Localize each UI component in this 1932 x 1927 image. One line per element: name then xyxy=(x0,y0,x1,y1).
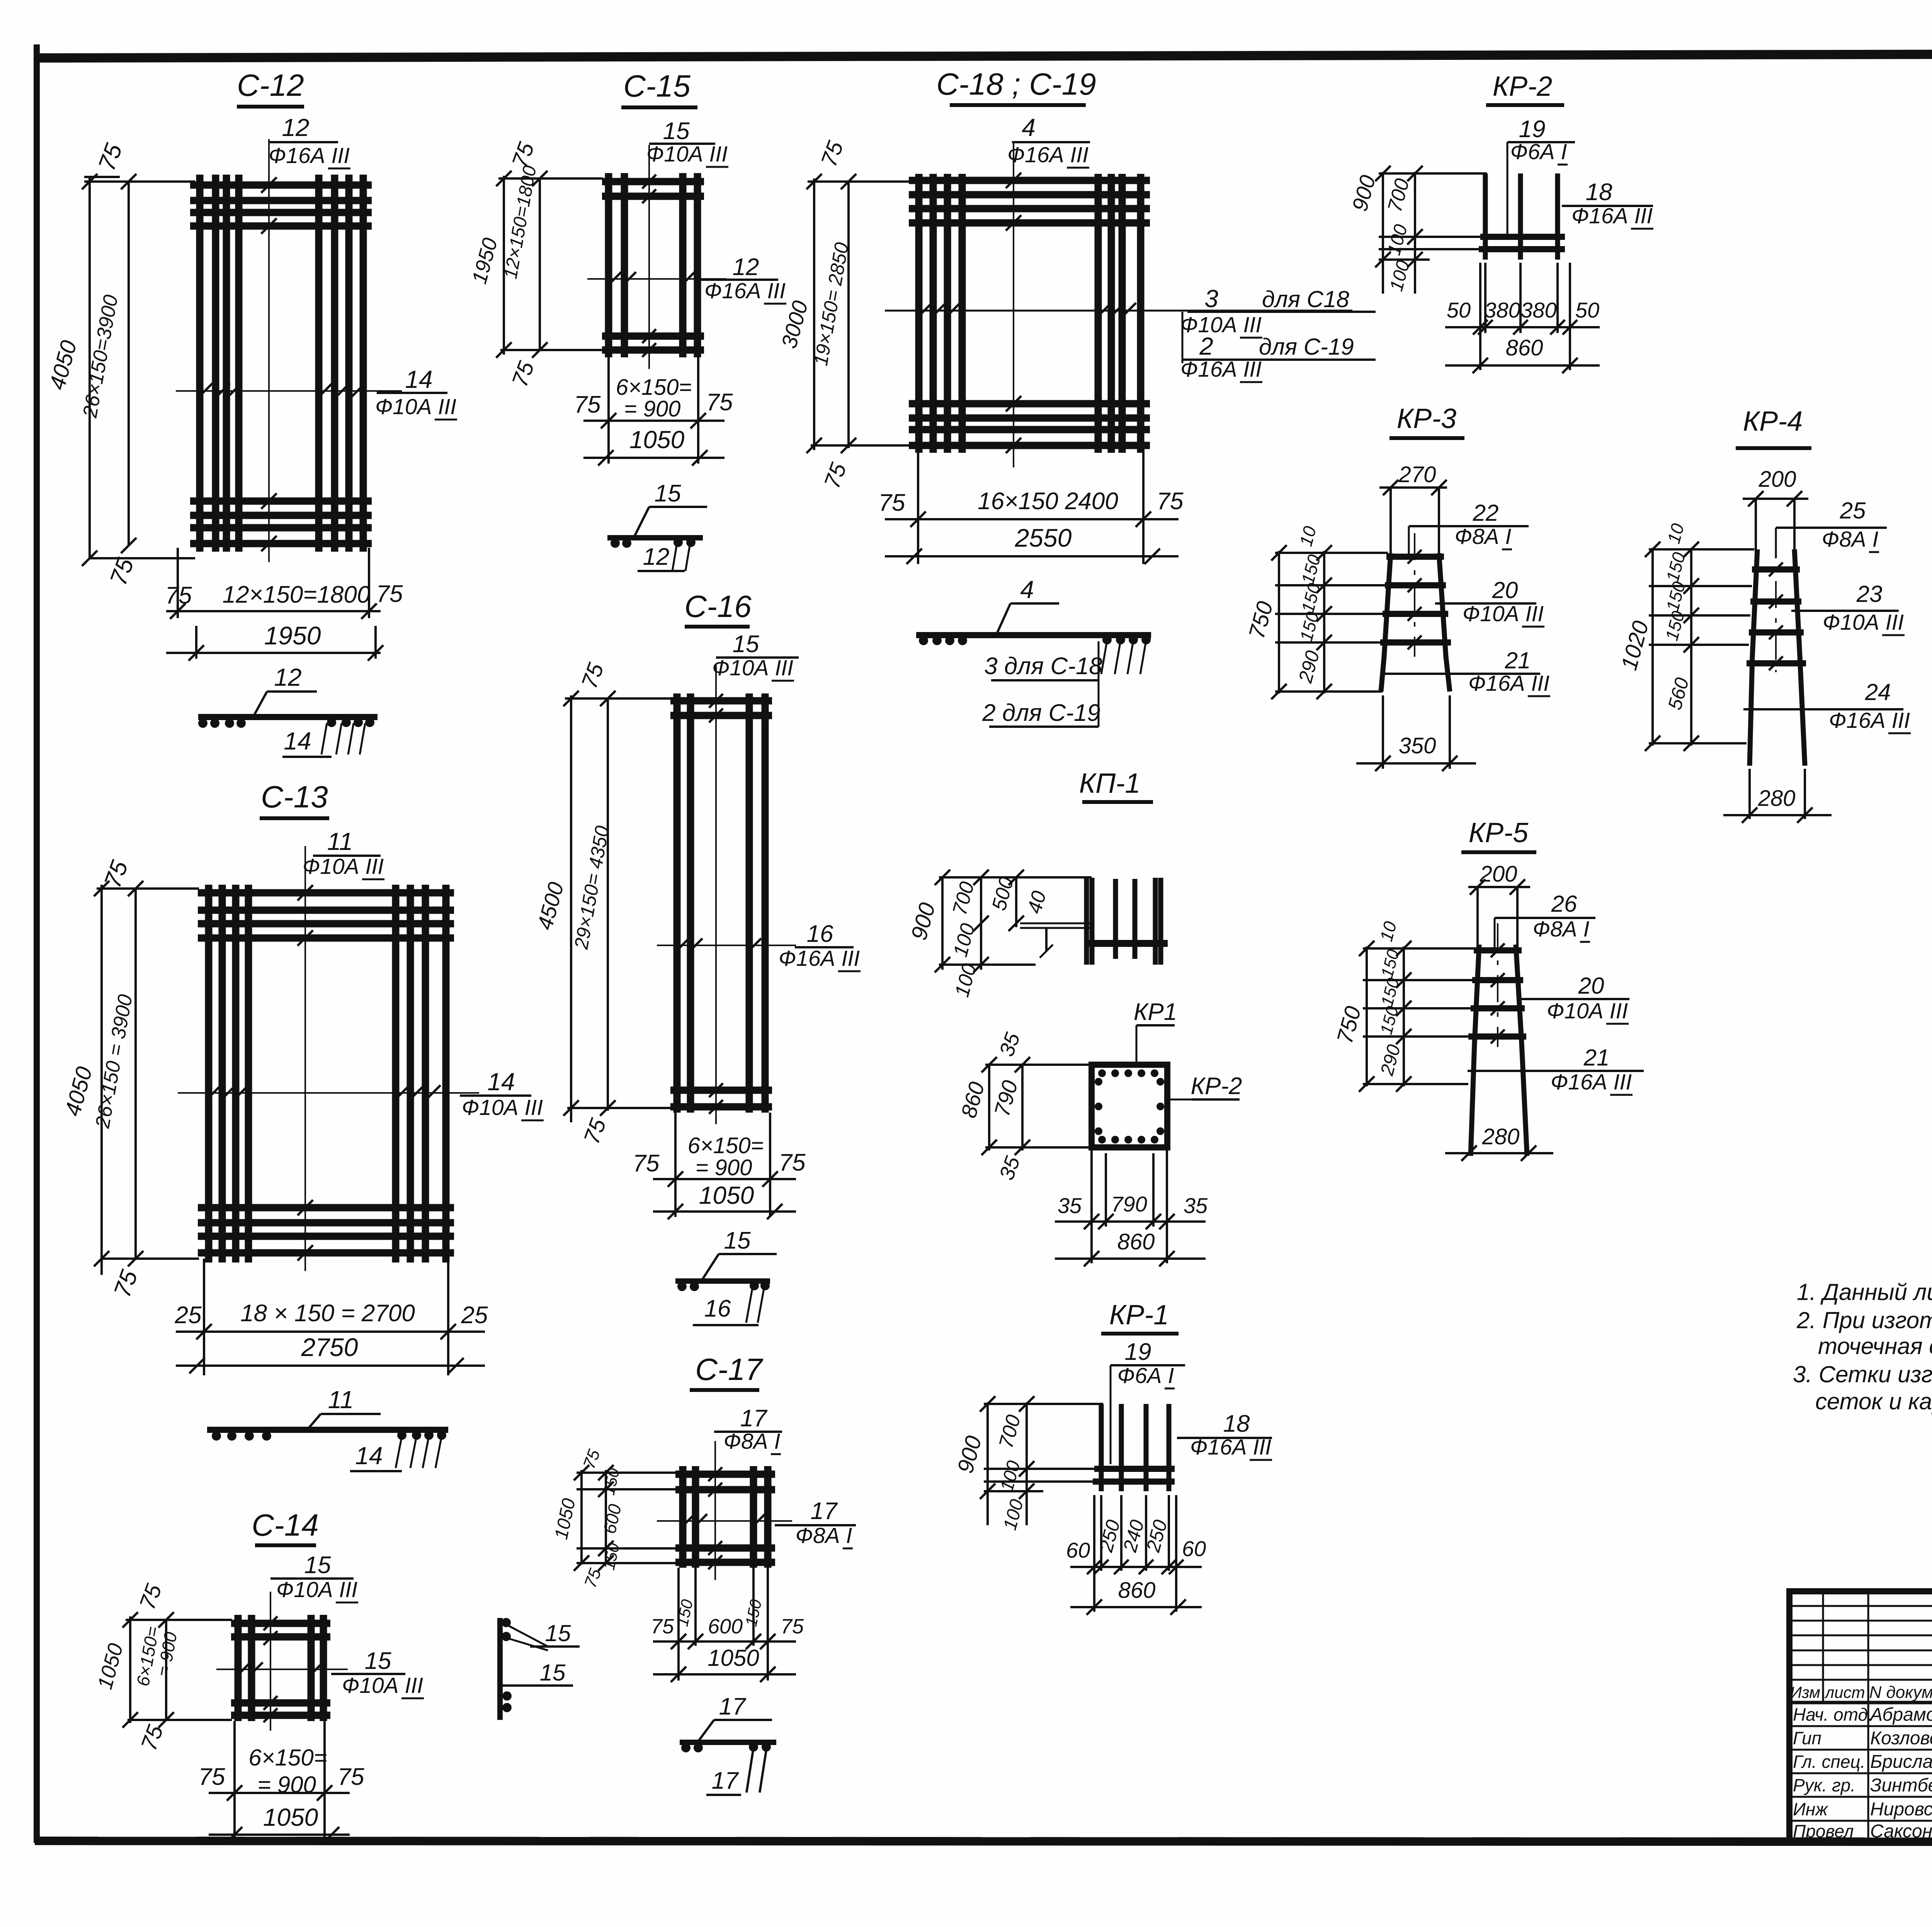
svg-text:точечная сварка.: точечная сварка. xyxy=(1818,1333,1932,1359)
svg-text:Изм: Изм xyxy=(1790,1683,1820,1701)
frame KP-1 elevation weld bar xyxy=(1088,940,1168,947)
svg-text:24: 24 xyxy=(1865,679,1891,705)
dim C-17 left 1050 150 600 150 xyxy=(580,1470,583,1565)
svg-text:15: 15 xyxy=(733,631,759,658)
dim KR-1 bottom 60 250 240 250 60 860 xyxy=(1100,1495,1102,1571)
svg-text:15: 15 xyxy=(545,1620,571,1646)
svg-text:14: 14 xyxy=(487,1068,515,1096)
svg-text:для С-19: для С-19 xyxy=(1259,334,1354,360)
svg-text:С-16: С-16 xyxy=(684,589,752,624)
frame KR-4 bars xyxy=(1750,549,1757,766)
sheet border bottom xyxy=(35,1841,1932,1842)
svg-text:С-18 ; С-19: С-18 ; С-19 xyxy=(936,67,1096,101)
dim KP-1 elevation xyxy=(941,877,944,970)
svg-text:3 для С-18: 3 для С-18 xyxy=(984,653,1102,680)
svg-text:1050: 1050 xyxy=(699,1181,754,1209)
title block revision rows xyxy=(1789,1605,1932,1607)
frame KP-1 elevation bars xyxy=(1084,878,1089,965)
svg-text:2: 2 xyxy=(1199,332,1213,360)
svg-text:Ф10А III: Ф10А III xyxy=(303,854,384,879)
svg-text:22: 22 xyxy=(1473,500,1499,526)
svg-text:75: 75 xyxy=(781,1615,804,1638)
svg-text:25: 25 xyxy=(461,1302,488,1329)
svg-text:КР-2: КР-2 xyxy=(1190,1073,1242,1099)
svg-text:20: 20 xyxy=(1578,973,1604,999)
svg-text:Саксонов: Саксонов xyxy=(1870,1821,1932,1842)
svg-text:Инж: Инж xyxy=(1793,1799,1828,1819)
svg-text:Ф6А I: Ф6А I xyxy=(1510,139,1567,164)
mesh C-18 centerlines xyxy=(1013,143,1014,467)
svg-text:Ф10А III: Ф10А III xyxy=(712,656,793,680)
svg-text:14: 14 xyxy=(405,365,432,393)
dim KR-1 left 900 700 100 100 xyxy=(986,1402,989,1525)
svg-text:12×150=1800: 12×150=1800 xyxy=(223,581,371,608)
svg-text:50: 50 xyxy=(1447,298,1471,322)
svg-text:Ф16А III: Ф16А III xyxy=(1007,143,1088,167)
frame KR-3 bars xyxy=(1381,553,1391,692)
svg-text:Ф16А III: Ф16А III xyxy=(1829,708,1910,733)
svg-text:17: 17 xyxy=(712,1767,739,1794)
mesh C-12 grid xyxy=(196,175,204,552)
svg-text:25: 25 xyxy=(1840,498,1866,523)
dim C-16 left 4500 29x150=4350 xyxy=(570,695,572,1122)
svg-text:75: 75 xyxy=(574,391,601,418)
section sketch poz 15 vertical xyxy=(497,1618,503,1720)
mesh C-16 grid xyxy=(673,693,681,1113)
svg-text:60: 60 xyxy=(1066,1538,1090,1562)
svg-text:С-15: С-15 xyxy=(623,69,690,103)
svg-text:Ф16А III: Ф16А III xyxy=(1468,671,1549,696)
svg-text:Нировский: Нировский xyxy=(1870,1799,1932,1820)
svg-text:С-12: С-12 xyxy=(237,68,304,102)
svg-text:Ф10А III: Ф10А III xyxy=(462,1095,543,1120)
dim KR-5 left 750 10 150x3 290 xyxy=(1366,947,1368,1086)
svg-text:КР-2: КР-2 xyxy=(1493,71,1552,102)
svg-text:75: 75 xyxy=(633,1150,660,1177)
svg-text:350: 350 xyxy=(1399,733,1436,758)
dim C-15 left 1950 12x150=1800 xyxy=(503,176,505,355)
dim C-18 left 3000 19x150=2850 xyxy=(813,178,815,450)
svg-text:35: 35 xyxy=(1184,1193,1208,1218)
svg-text:Козловская: Козловская xyxy=(1870,1728,1932,1749)
svg-text:12: 12 xyxy=(282,114,309,141)
svg-text:860: 860 xyxy=(1118,1578,1156,1603)
svg-text:Провел: Провел xyxy=(1793,1821,1854,1841)
svg-text:18: 18 xyxy=(1586,179,1612,206)
svg-text:270: 270 xyxy=(1398,462,1436,487)
svg-text:Гл. спец.: Гл. спец. xyxy=(1793,1752,1865,1772)
frame KR-1 bars xyxy=(1099,1404,1104,1491)
svg-text:75: 75 xyxy=(651,1615,674,1638)
mesh C-17 centerlines xyxy=(714,1441,716,1580)
svg-text:790: 790 xyxy=(1111,1192,1147,1216)
svg-text:75: 75 xyxy=(1157,488,1184,515)
svg-text:Ф10А III: Ф10А III xyxy=(375,394,456,419)
svg-text:= 900: = 900 xyxy=(624,396,681,421)
svg-text:С-13: С-13 xyxy=(261,780,328,814)
svg-text:14: 14 xyxy=(355,1442,383,1470)
dim C-12 left 4050 and 26x150=3900 xyxy=(88,176,91,559)
svg-text:2 для С-19: 2 для С-19 xyxy=(982,700,1100,726)
svg-text:2. При изготовлении сеток п: 2. При изготовлении сеток применяется ко… xyxy=(1796,1307,1932,1333)
dim KR-2 bottom 50 380 380 50 860 xyxy=(1484,263,1486,333)
frame KR-5 bars xyxy=(1471,945,1479,1156)
svg-text:КП-1: КП-1 xyxy=(1079,768,1141,799)
svg-text:Ф16А III: Ф16А III xyxy=(1571,204,1653,228)
svg-text:12: 12 xyxy=(643,544,670,570)
svg-text:23: 23 xyxy=(1856,581,1883,607)
svg-text:15: 15 xyxy=(365,1648,391,1674)
dim C-15 bottom 6x150=900 1050 xyxy=(607,355,610,464)
svg-text:35: 35 xyxy=(1058,1193,1082,1218)
svg-text:15: 15 xyxy=(304,1552,331,1579)
svg-text:3: 3 xyxy=(1204,285,1218,313)
svg-text:17: 17 xyxy=(719,1693,747,1720)
svg-text:200: 200 xyxy=(1480,862,1517,887)
svg-text:15: 15 xyxy=(540,1660,566,1686)
mesh C-15 grid xyxy=(605,173,612,357)
svg-text:Ф16А III: Ф16А III xyxy=(269,143,350,168)
title block signature rows xyxy=(1789,1725,1932,1727)
svg-text:Ф10А III: Ф10А III xyxy=(646,142,728,167)
svg-text:Ф10А III: Ф10А III xyxy=(1547,999,1628,1023)
mesh C-15 centerlines xyxy=(648,145,650,369)
svg-text:16×150 2400: 16×150 2400 xyxy=(978,488,1118,515)
svg-text:15: 15 xyxy=(655,480,681,507)
dim KR-4 left 1020 10 150x3 560 xyxy=(1651,548,1654,746)
svg-text:КР-4: КР-4 xyxy=(1743,406,1803,437)
dim C-17 bottom 75 150 600 150 75 1050 xyxy=(677,1568,680,1681)
svg-text:860: 860 xyxy=(1506,335,1543,360)
svg-text:50: 50 xyxy=(1575,298,1599,322)
frame KR-2 bars xyxy=(1483,173,1488,260)
svg-text:25: 25 xyxy=(175,1302,202,1329)
svg-text:Ф16А III: Ф16А III xyxy=(1190,1435,1271,1460)
mesh C-14 grid xyxy=(235,1615,242,1721)
svg-text:21: 21 xyxy=(1583,1045,1610,1071)
svg-text:21: 21 xyxy=(1505,647,1531,673)
svg-text:Ф16А III: Ф16А III xyxy=(1551,1070,1632,1094)
svg-text:1050: 1050 xyxy=(707,1645,759,1671)
svg-text:Ф8А I: Ф8А I xyxy=(1822,527,1879,552)
svg-text:Ф10А III: Ф10А III xyxy=(1180,313,1262,337)
svg-text:Ф16А III: Ф16А III xyxy=(779,946,860,971)
svg-text:75: 75 xyxy=(165,582,192,609)
svg-text:860: 860 xyxy=(1117,1229,1155,1254)
svg-text:75: 75 xyxy=(338,1764,364,1790)
svg-text:16: 16 xyxy=(807,921,833,947)
svg-text:сеток и каркасов дана п: сеток и каркасов дана по осям стержней. xyxy=(1815,1388,1932,1414)
svg-text:Зинтберг: Зинтберг xyxy=(1870,1775,1932,1796)
svg-text:280: 280 xyxy=(1758,786,1796,811)
svg-text:18: 18 xyxy=(1223,1410,1250,1437)
svg-text:Ф10А III: Ф10А III xyxy=(342,1673,423,1698)
svg-text:15: 15 xyxy=(663,118,690,144)
svg-text:17: 17 xyxy=(740,1405,768,1432)
svg-text:200: 200 xyxy=(1759,467,1796,492)
svg-text:19: 19 xyxy=(1125,1339,1151,1365)
svg-text:75: 75 xyxy=(199,1764,225,1790)
svg-text:12: 12 xyxy=(274,663,301,691)
svg-text:Рук. гр.: Рук. гр. xyxy=(1793,1775,1855,1795)
dim C-18 bottom 16x150 2400 and 2550 xyxy=(917,448,919,564)
svg-text:Ф10А III: Ф10А III xyxy=(1823,610,1904,635)
svg-text:1050: 1050 xyxy=(263,1803,318,1831)
dim C-13 left 4050 and 26x150=3900 xyxy=(100,885,103,1275)
svg-text:60: 60 xyxy=(1182,1536,1206,1561)
svg-text:16: 16 xyxy=(704,1295,731,1322)
svg-text:600: 600 xyxy=(708,1615,743,1638)
svg-text:Бриславский: Бриславский xyxy=(1870,1752,1932,1772)
svg-text:Ф8А I: Ф8А I xyxy=(1455,524,1512,549)
svg-text:75: 75 xyxy=(879,489,905,516)
title block frame xyxy=(1789,1591,1932,1843)
svg-text:Ф10А III: Ф10А III xyxy=(1463,602,1544,626)
svg-text:12: 12 xyxy=(733,254,759,280)
frame KP-1 plan box xyxy=(1092,1065,1167,1147)
svg-text:Ф10А III: Ф10А III xyxy=(276,1577,357,1602)
dim C-12 bottom 12x150=1800 and 1950 xyxy=(177,548,179,618)
dim KR-2 left 900 700 100 100 xyxy=(1382,172,1384,294)
svg-text:380: 380 xyxy=(1520,298,1556,322)
svg-text:17: 17 xyxy=(811,1498,838,1524)
svg-text:14: 14 xyxy=(284,727,311,755)
mesh C-16 centerlines xyxy=(715,664,717,1124)
dim KR-3 bottom 350 xyxy=(1382,695,1384,769)
svg-text:С-14: С-14 xyxy=(252,1508,318,1542)
dim KP-1 plan xyxy=(988,1065,990,1150)
svg-text:КР-1: КР-1 xyxy=(1109,1300,1169,1331)
svg-text:Гип: Гип xyxy=(1793,1728,1821,1748)
dim C-14 left 1050 6x150=900 xyxy=(129,1616,131,1723)
svg-text:75: 75 xyxy=(706,389,733,416)
svg-text:6×150=: 6×150= xyxy=(248,1745,327,1771)
svg-text:КР-3: КР-3 xyxy=(1397,403,1456,434)
svg-text:С-17: С-17 xyxy=(695,1352,763,1387)
sheet border left xyxy=(34,44,40,1843)
svg-text:4: 4 xyxy=(1022,114,1036,141)
svg-text:26: 26 xyxy=(1551,891,1577,917)
svg-text:Ф16А III: Ф16А III xyxy=(1180,357,1262,382)
svg-text:КР1: КР1 xyxy=(1134,999,1177,1025)
dim KR-4 bottom 280 xyxy=(1748,769,1751,819)
svg-text:18 × 150 = 2700: 18 × 150 = 2700 xyxy=(240,1300,415,1327)
svg-text:Абрамович: Абрамович xyxy=(1869,1704,1932,1725)
dim KR-3 left 750 10 150x3 290 xyxy=(1278,551,1280,693)
svg-text:1950: 1950 xyxy=(264,621,321,650)
mesh C-17 grid xyxy=(679,1466,687,1568)
svg-text:Ф6А I: Ф6А I xyxy=(1117,1363,1174,1388)
svg-text:1050: 1050 xyxy=(629,426,685,454)
svg-text:19: 19 xyxy=(1519,116,1546,143)
dim C-16 bottom 6x150=900 1050 xyxy=(674,1113,677,1217)
svg-text:20: 20 xyxy=(1492,577,1518,603)
svg-text:380: 380 xyxy=(1484,298,1520,322)
svg-text:лист: лист xyxy=(1824,1683,1865,1701)
svg-text:11: 11 xyxy=(327,828,353,855)
mesh C-18 C-19 grid xyxy=(915,174,923,453)
svg-text:Нач. отд.: Нач. отд. xyxy=(1793,1704,1873,1725)
svg-text:15: 15 xyxy=(724,1227,751,1254)
svg-text:2550: 2550 xyxy=(1015,523,1072,552)
svg-text:КР-5: КР-5 xyxy=(1469,817,1529,848)
svg-text:2750: 2750 xyxy=(301,1333,358,1361)
svg-text:Ф8А I: Ф8А I xyxy=(796,1523,852,1548)
mesh C-13 grid xyxy=(205,885,213,1263)
svg-text:4: 4 xyxy=(1020,576,1034,603)
svg-text:75: 75 xyxy=(779,1149,806,1176)
svg-text:Ф8А I: Ф8А I xyxy=(1533,917,1590,941)
svg-text:75: 75 xyxy=(376,581,403,607)
svg-text:Ф8А I: Ф8А I xyxy=(724,1429,781,1454)
svg-text:N документа: N документа xyxy=(1869,1683,1932,1702)
svg-text:280: 280 xyxy=(1482,1124,1520,1149)
svg-text:1. Данный лист комплектен с: 1. Данный лист комплектен с листами кж-3… xyxy=(1797,1279,1932,1305)
svg-text:11: 11 xyxy=(328,1386,354,1414)
sheet border top xyxy=(37,53,1932,58)
svg-text:Ф16А III: Ф16А III xyxy=(704,279,786,303)
mesh C-14 centerlines xyxy=(270,1592,271,1731)
svg-text:= 900: = 900 xyxy=(696,1155,752,1180)
dim C-13 bottom 18x150=2700 and 2750 xyxy=(203,1259,205,1375)
dim C-14 bottom 6x150=900 1050 xyxy=(233,1721,236,1843)
svg-text:для С18: для С18 xyxy=(1262,286,1349,312)
svg-text:3. Сетки изготовлять в кондукт: 3. Сетки изготовлять в кондукторах. Разб… xyxy=(1793,1361,1932,1387)
mesh C-13 centerlines xyxy=(304,846,306,1271)
mesh C-12 centerlines xyxy=(268,139,270,562)
svg-text:6×150=: 6×150= xyxy=(688,1133,764,1158)
